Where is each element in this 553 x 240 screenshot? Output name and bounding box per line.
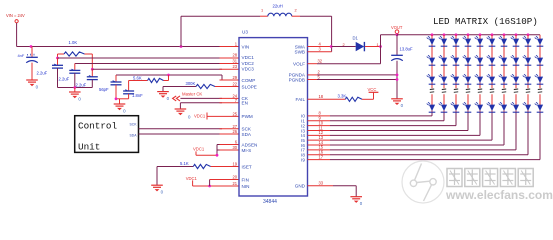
- svg-text:EN: EN: [242, 101, 248, 106]
- wire break marks: [430, 88, 434, 91]
- wire break marks: [454, 88, 458, 91]
- svg-text:28: 28: [232, 52, 237, 57]
- LED row 2 column 6: [489, 58, 495, 64]
- svg-text:17: 17: [319, 154, 324, 159]
- LED string column 8: [515, 33, 518, 36]
- LED row 4 column 2: [441, 105, 447, 111]
- wire break marks: [490, 88, 494, 91]
- svg-text:Unit: Unit: [78, 141, 100, 152]
- LED row 3 column 9: [525, 77, 531, 83]
- LED row 1 column 9: [525, 39, 531, 45]
- svg-text:3.3K: 3.3K: [338, 93, 347, 98]
- wire channel I3: [308, 129, 331, 131]
- svg-text:FAIL: FAIL: [296, 97, 306, 102]
- ground ISET resistor: [151, 184, 163, 186]
- LED row 4 column 1: [429, 105, 435, 111]
- wire FAIL: [308, 98, 346, 100]
- wire SWA stub: [308, 46, 332, 48]
- svg-text:21: 21: [232, 181, 237, 186]
- wire break marks: [478, 88, 482, 91]
- LED row 3 column 5: [477, 77, 483, 83]
- svg-text:29: 29: [232, 75, 237, 80]
- svg-text:VDC1: VDC1: [194, 113, 206, 118]
- wire channel I9: [308, 159, 331, 161]
- svg-text:5.6K: 5.6K: [133, 76, 142, 81]
- wire SDA: [139, 133, 223, 135]
- svg-text:25: 25: [232, 111, 237, 116]
- svg-text:VIN: VIN: [242, 44, 250, 49]
- svg-text:I9: I9: [301, 157, 305, 162]
- svg-text:32: 32: [318, 59, 323, 64]
- ground EN: [175, 108, 187, 110]
- ground input cap: [26, 79, 38, 81]
- wire break marks: [466, 88, 470, 91]
- LED row 3 column 4: [465, 77, 471, 83]
- LED row 2 column 5: [477, 58, 483, 64]
- svg-text:3: 3: [319, 47, 322, 52]
- svg-text:VDC1: VDC1: [193, 147, 205, 152]
- ground IC GND: [350, 196, 362, 198]
- node COMP junction: [167, 74, 170, 77]
- LED string column 7: [503, 33, 506, 36]
- wire VDC2 net: [75, 63, 222, 65]
- LED row 1 column 6: [489, 39, 495, 45]
- LED row 2 column 4: [465, 58, 471, 64]
- svg-text:SDA: SDA: [130, 133, 138, 137]
- svg-text:0: 0: [360, 201, 363, 206]
- wire to VOUT: [381, 34, 398, 36]
- svg-text:1: 1: [235, 42, 238, 47]
- svg-text:SDA: SDA: [242, 132, 252, 137]
- svg-text:18: 18: [319, 94, 324, 99]
- node PGNDB junction: [396, 78, 399, 81]
- wire channel I2: [308, 125, 331, 127]
- wire VIN vertical: [16, 23, 18, 47]
- LED row 1 column 5: [477, 39, 483, 45]
- power VCC: [369, 91, 379, 93]
- svg-text:ADSEN: ADSEN: [242, 142, 258, 147]
- wire PGNDA: [308, 74, 318, 76]
- LED row 1 column 8: [513, 39, 519, 45]
- node diode/VOLF junction: [379, 45, 382, 48]
- LED row 1 column 1: [429, 39, 435, 45]
- wire channel I7: [308, 149, 331, 151]
- LED row 1 column 10: [537, 39, 543, 45]
- svg-text:D1: D1: [353, 36, 359, 41]
- LED row 4 column 4: [465, 105, 471, 111]
- wire VDC3 net: [92, 68, 222, 70]
- svg-text:VDC3: VDC3: [242, 67, 255, 72]
- wire ASEN/MI-S vertical: [216, 145, 218, 156]
- LED row 2 column 8: [513, 58, 519, 64]
- svg-text:2.2uF: 2.2uF: [59, 77, 70, 82]
- svg-text:COMP: COMP: [242, 78, 256, 83]
- svg-text:U3: U3: [242, 30, 248, 35]
- svg-text:0: 0: [167, 96, 170, 101]
- wire ASEN: [217, 144, 222, 146]
- op-amp U1 : IC U3 34844 body: [239, 38, 308, 196]
- svg-text:5.1K: 5.1K: [180, 161, 189, 166]
- ground comp network: [119, 99, 121, 104]
- LED row 4 column 3: [453, 105, 459, 111]
- ground output cap: [391, 98, 403, 100]
- wire GND pin: [308, 185, 334, 187]
- svg-text:FIN: FIN: [242, 177, 249, 182]
- svg-text:20: 20: [232, 175, 237, 180]
- svg-text:6: 6: [235, 140, 238, 145]
- LED string column 2: [443, 33, 446, 36]
- node PGNDA junction: [396, 74, 399, 77]
- Control Unit box: [75, 116, 139, 153]
- wire PWM: [207, 115, 239, 117]
- wire break marks: [502, 88, 506, 91]
- svg-text:13.8uF: 13.8uF: [400, 47, 413, 52]
- node comp ground junction: [115, 97, 118, 100]
- wire PGNDB: [308, 79, 318, 81]
- wire comp caps bottom: [116, 98, 129, 100]
- svg-text:22: 22: [232, 82, 237, 87]
- LED row 2 column 9: [525, 58, 531, 64]
- LED row 1 column 3: [453, 39, 459, 45]
- svg-text:GND: GND: [295, 184, 306, 189]
- svg-text:30: 30: [232, 145, 237, 150]
- LED string column 10: [539, 35, 541, 88]
- LED row 2 column 7: [501, 58, 507, 64]
- wire channel I0: [308, 115, 331, 117]
- LED string column 1: [431, 33, 434, 36]
- node boost branch junction: [180, 45, 183, 48]
- node FIN/NIN junction: [208, 185, 211, 188]
- wire SCK: [139, 128, 223, 130]
- node VDC3 junction: [91, 68, 94, 71]
- wire CK: [180, 97, 222, 99]
- svg-text:SWB: SWB: [295, 50, 305, 55]
- svg-text:0: 0: [161, 190, 164, 195]
- wire EN: [180, 102, 222, 104]
- wire VOLF feedback: [308, 63, 318, 65]
- LED row 4 column 9: [525, 105, 531, 111]
- wire top rail to inductor: [180, 16, 182, 46]
- ground slope resistor: [157, 91, 169, 93]
- svg-text:300K: 300K: [186, 81, 196, 86]
- svg-text:VCC: VCC: [368, 87, 377, 92]
- svg-text:4nF: 4nF: [18, 53, 25, 58]
- svg-text:0: 0: [36, 84, 39, 89]
- LED row 3 column 2: [441, 77, 447, 83]
- LED row 4 column 8: [513, 105, 519, 111]
- svg-text:PGNDB: PGNDB: [289, 77, 305, 82]
- svg-text:33: 33: [319, 181, 324, 186]
- wire NIN/VDC1: [193, 185, 239, 187]
- ground VDC caps: [69, 91, 81, 93]
- svg-text:1: 1: [261, 7, 263, 12]
- svg-text:1.0K: 1.0K: [69, 40, 78, 45]
- watermark logo: [402, 161, 444, 203]
- wire MI-S: [217, 149, 222, 151]
- svg-text:31: 31: [232, 58, 237, 63]
- LED row 1 column 4: [465, 39, 471, 45]
- wire VOUT rail to LED matrix: [397, 34, 540, 36]
- node input cap junction: [30, 45, 33, 48]
- svg-text:23: 23: [232, 64, 237, 69]
- LED row 2 column 2: [441, 58, 447, 64]
- LED row 2 column 1: [429, 58, 435, 64]
- LED row 3 column 7: [501, 77, 507, 83]
- wire channel I6: [308, 144, 331, 146]
- svg-text:VDC1: VDC1: [186, 176, 198, 181]
- LED row 3 column 6: [489, 77, 495, 83]
- svg-text:LED MATRIX (16S10P): LED MATRIX (16S10P): [433, 16, 538, 27]
- svg-text:22uH: 22uH: [273, 4, 283, 9]
- LED string column 3: [455, 33, 458, 36]
- svg-text:0: 0: [123, 108, 126, 113]
- svg-text:SCK: SCK: [130, 123, 138, 127]
- LED row 4 column 7: [501, 105, 507, 111]
- wire break marks: [526, 88, 530, 91]
- LED row 4 column 6: [489, 105, 495, 111]
- svg-text:0: 0: [188, 115, 191, 120]
- svg-text:MI-S: MI-S: [242, 148, 252, 153]
- svg-text:56pF: 56pF: [99, 87, 109, 92]
- wire FIN: [210, 179, 239, 181]
- svg-text:0: 0: [78, 96, 81, 101]
- wire channel I4: [308, 134, 331, 136]
- svg-text:26: 26: [232, 129, 237, 134]
- svg-text:NIN: NIN: [242, 184, 250, 189]
- node VDC1 junction: [56, 57, 59, 60]
- node VOUT junction: [396, 33, 399, 36]
- LED string column 4: [467, 33, 470, 36]
- wire cap bottoms: [58, 87, 93, 89]
- LED row 3 column 8: [513, 77, 519, 83]
- LED row 2 column 10: [537, 58, 543, 64]
- LED row 3 column 3: [453, 77, 459, 83]
- watermark chinese characters: [447, 169, 462, 187]
- wire COMP net: [116, 74, 222, 76]
- wire inductor to SW node: [331, 16, 333, 52]
- LED row 1 column 7: [501, 39, 507, 45]
- node VDC1/MI-S junction: [216, 154, 219, 157]
- LED row 4 column 5: [477, 105, 483, 111]
- svg-text:VDC1: VDC1: [242, 55, 255, 60]
- wire VIN rail: [17, 46, 222, 48]
- svg-text:ISET: ISET: [242, 164, 252, 169]
- node SW junction: [330, 45, 333, 48]
- LED row 2 column 3: [453, 58, 459, 64]
- svg-text:Control: Control: [78, 120, 117, 131]
- svg-text:2: 2: [295, 7, 297, 12]
- LED row 3 column 1: [429, 77, 435, 83]
- svg-text:www.elecfans.com: www.elecfans.com: [445, 188, 553, 202]
- LED string column 6: [491, 33, 494, 36]
- svg-text:19: 19: [232, 162, 237, 167]
- wire channel I5: [308, 139, 331, 141]
- LED string column 5: [479, 33, 482, 36]
- svg-text:34844: 34844: [263, 199, 277, 205]
- wire SWB stub: [308, 51, 332, 53]
- wire FIN vertical: [209, 180, 211, 187]
- svg-text:VIN = 24V: VIN = 24V: [6, 13, 25, 18]
- svg-text:2.2uF: 2.2uF: [76, 82, 87, 87]
- node cap ground junction: [73, 86, 76, 89]
- wire break marks: [514, 88, 518, 91]
- wire break marks: [538, 88, 542, 91]
- LED row 4 column 10: [537, 105, 543, 111]
- svg-text:2.2uF: 2.2uF: [37, 71, 48, 76]
- wire channel I8: [308, 154, 331, 156]
- svg-text:PWM: PWM: [242, 114, 253, 119]
- LED row 3 column 10: [537, 77, 543, 83]
- LED string column 9: [527, 33, 530, 36]
- wire break marks: [442, 88, 446, 91]
- wire channel I1: [308, 120, 331, 122]
- wire VDC1 net: [58, 57, 223, 59]
- LED row 1 column 2: [441, 39, 447, 45]
- svg-text:Master CK: Master CK: [182, 91, 202, 96]
- svg-text:0: 0: [401, 103, 404, 108]
- svg-text:VOLF: VOLF: [293, 62, 305, 67]
- svg-text:SLOPE: SLOPE: [242, 84, 257, 89]
- input chevron Master CK: [176, 96, 180, 101]
- svg-text:VDC2: VDC2: [242, 61, 255, 66]
